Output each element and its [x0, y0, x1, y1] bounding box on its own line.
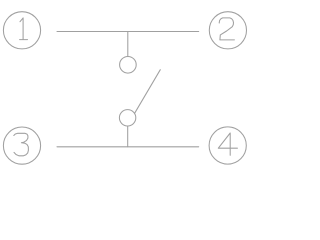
wire top stub to contact — [127, 32, 129, 57]
pin number 1 — [20, 18, 28, 40]
wire top rail pin1-pin2 — [57, 31, 199, 33]
pin circle 3 — [3, 127, 40, 164]
pin number 2 — [219, 18, 234, 40]
wire bottom stub to contact — [127, 126, 129, 147]
pin number 3 — [14, 133, 29, 156]
pin circle 2 — [209, 12, 246, 49]
wire bottom rail pin3-pin4 — [57, 146, 199, 148]
switch actuator lever — [135, 70, 161, 114]
switch contact bottom — [119, 110, 135, 126]
switch contact top — [120, 57, 137, 74]
pin circle 4 — [209, 127, 246, 164]
pin number 4 — [218, 133, 237, 155]
pin circle 1 — [3, 12, 40, 49]
